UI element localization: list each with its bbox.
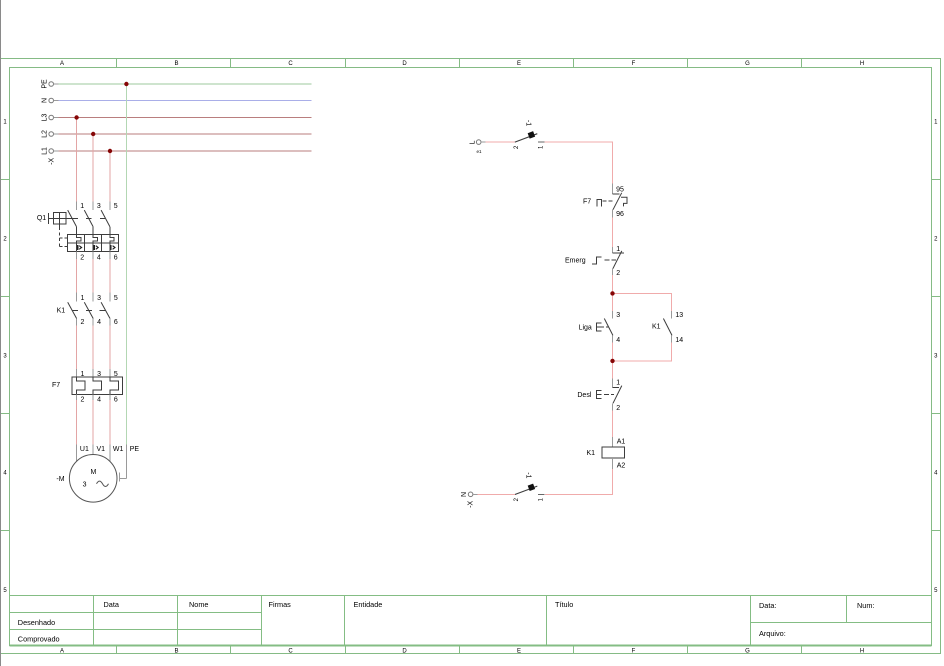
contactor K1 main contacts (57, 293, 118, 327)
svg-text:L2: L2 (41, 130, 48, 138)
svg-text:E: E (517, 648, 521, 654)
svg-text:e1: e1 (477, 149, 483, 154)
wire PE bus (59, 83, 312, 85)
svg-text:1: 1 (616, 246, 620, 253)
svg-text:96: 96 (616, 211, 624, 218)
pushbutton Emerg NC (565, 246, 624, 277)
svg-text:3: 3 (3, 354, 7, 360)
svg-text:E: E (517, 61, 521, 67)
svg-text:A: A (60, 61, 64, 67)
svg-text:4: 4 (616, 337, 620, 344)
svg-text:Num:: Num: (857, 601, 874, 610)
svg-text:3: 3 (934, 354, 938, 360)
wire F7 aux to Emerg (612, 218, 614, 247)
title block (10, 596, 932, 646)
svg-text:14: 14 (675, 337, 683, 344)
svg-text:2: 2 (934, 237, 938, 243)
svg-text:4: 4 (934, 471, 938, 477)
svg-text:Firmas: Firmas (269, 600, 292, 609)
svg-text:3: 3 (616, 312, 620, 319)
svg-text:1: 1 (3, 120, 7, 126)
net label N (41, 98, 48, 103)
net label PE (41, 79, 48, 89)
wire Desl to coil (612, 410, 614, 437)
overload relay F7 (52, 369, 122, 404)
svg-text:G: G (745, 61, 750, 67)
net label L (470, 140, 477, 144)
svg-text:2: 2 (81, 319, 85, 326)
svg-text:2: 2 (3, 237, 7, 243)
wire PE drop (125, 84, 127, 444)
svg-text:2: 2 (616, 270, 620, 277)
terminal -X N (control) (468, 492, 477, 497)
svg-text:PE: PE (130, 446, 140, 453)
svg-text:A: A (60, 648, 64, 654)
svg-text:K1: K1 (57, 308, 66, 315)
wire K1 aux to node B (613, 343, 672, 361)
svg-text:2: 2 (616, 405, 620, 412)
svg-text:5: 5 (3, 588, 7, 594)
svg-text:A1: A1 (617, 439, 626, 446)
svg-text:-1: -1 (524, 120, 531, 126)
wire L1 drop (109, 151, 111, 201)
svg-text:5: 5 (934, 588, 938, 594)
wire Q1 to K1 (77, 252, 110, 259)
svg-text:U1: U1 (80, 446, 89, 453)
svg-text:4: 4 (97, 397, 101, 404)
svg-text:1: 1 (81, 295, 85, 302)
svg-text:H: H (860, 648, 864, 654)
svg-text:4: 4 (97, 254, 101, 261)
pushbutton Desl NC (577, 379, 621, 413)
svg-text:L: L (470, 140, 477, 144)
node B junction (610, 359, 614, 363)
svg-text:Q1: Q1 (37, 215, 46, 222)
wire L3 drop (76, 118, 78, 202)
breaker -1 (control, top) (514, 120, 545, 149)
svg-text:F7: F7 (52, 382, 60, 389)
net label N (461, 492, 468, 497)
motor PE frame connection (119, 444, 126, 481)
wire L2 bus (59, 133, 312, 135)
svg-text:L1: L1 (41, 147, 48, 155)
svg-text:1: 1 (80, 203, 84, 210)
designator -X (468, 500, 475, 507)
motor -M (56, 444, 139, 502)
wire F7 to motor (77, 400, 110, 444)
svg-text:5: 5 (114, 203, 118, 210)
wire node B to Desl (612, 361, 614, 379)
svg-text:2: 2 (80, 254, 84, 261)
svg-text:Entidade: Entidade (354, 600, 383, 609)
svg-text:B: B (174, 648, 178, 654)
pushbutton Liga NO (579, 311, 621, 344)
wire N terminal to breaker 2 (478, 494, 515, 496)
svg-text:Arquivo:: Arquivo: (759, 629, 786, 638)
svg-text:H: H (860, 61, 864, 67)
svg-text:2: 2 (514, 497, 520, 501)
wire L3 bus (59, 117, 312, 119)
svg-text:K1: K1 (586, 450, 595, 457)
svg-text:5: 5 (114, 295, 118, 302)
terminal -X L1 (49, 149, 59, 154)
svg-text:C: C (288, 61, 293, 67)
terminal -X L (control) (476, 140, 485, 145)
svg-text:M: M (90, 469, 96, 476)
svg-text:2: 2 (514, 145, 520, 149)
svg-text:3: 3 (83, 481, 87, 488)
wire L to breaker (486, 141, 515, 143)
svg-text:-X: -X (468, 500, 475, 507)
wire Liga to node B (612, 343, 614, 361)
junction PE (124, 82, 128, 86)
terminal -X L2 (49, 132, 59, 137)
F7 auxiliary NC contact 95-96 (583, 184, 627, 218)
svg-text:L3: L3 (41, 114, 48, 122)
svg-text:A2: A2 (617, 462, 626, 469)
svg-text:D: D (402, 61, 407, 67)
terminal label e1 (477, 149, 483, 154)
breaker -1 (control, bottom) (514, 472, 545, 501)
junction L2 (91, 132, 95, 136)
svg-text:6: 6 (114, 319, 118, 326)
gray canvas edge (0, 0, 2, 666)
svg-text:D: D (402, 648, 407, 654)
net label L3 (41, 114, 48, 122)
junction L1 (108, 149, 112, 153)
svg-text:1: 1 (539, 497, 545, 501)
designator -X (48, 157, 55, 164)
wire breaker to F7 aux (544, 142, 612, 184)
svg-text:4: 4 (97, 319, 101, 326)
coil K1 (586, 437, 625, 469)
svg-text:Liga: Liga (579, 325, 592, 332)
svg-text:-X: -X (48, 157, 55, 164)
svg-text:1: 1 (616, 379, 620, 386)
svg-text:2: 2 (81, 397, 85, 404)
svg-text:Título: Título (555, 600, 573, 609)
svg-text:3: 3 (97, 203, 101, 210)
net label L1 (41, 147, 48, 155)
svg-text:N: N (41, 98, 48, 103)
svg-text:K1: K1 (652, 324, 661, 331)
breaker Q1 (37, 201, 119, 261)
contact K1 aux NO 13-14 (652, 311, 683, 344)
wire branch to K1 aux (613, 293, 672, 311)
svg-text:N: N (461, 492, 468, 497)
terminal -X L3 (49, 115, 59, 120)
svg-text:Desenhado: Desenhado (18, 618, 55, 627)
svg-text:-M: -M (56, 476, 64, 483)
wire L2 drop (92, 134, 94, 201)
svg-text:95: 95 (616, 187, 624, 194)
net label L2 (41, 130, 48, 138)
junction L3 (74, 115, 78, 119)
terminal -X N (49, 98, 59, 103)
node A junction (610, 291, 614, 295)
svg-text:3: 3 (97, 295, 101, 302)
svg-text:6: 6 (114, 397, 118, 404)
svg-text:Data:: Data: (759, 601, 776, 610)
svg-text:Data: Data (104, 600, 120, 609)
svg-text:4: 4 (3, 471, 7, 477)
svg-text:Desl: Desl (577, 392, 591, 399)
svg-text:F7: F7 (583, 198, 591, 205)
svg-text:W1: W1 (113, 446, 124, 453)
svg-text:C: C (288, 648, 293, 654)
svg-text:Nome: Nome (189, 600, 208, 609)
wire node A to Liga (612, 293, 614, 311)
wire coil to breaker 2 (545, 469, 612, 495)
svg-text:B: B (174, 61, 178, 67)
svg-text:F: F (632, 61, 636, 67)
svg-text:1: 1 (934, 120, 938, 126)
svg-text:Emerg: Emerg (565, 258, 586, 265)
svg-text:6: 6 (114, 254, 118, 261)
svg-text:V1: V1 (97, 446, 106, 453)
svg-text:G: G (745, 648, 750, 654)
wire N bus (59, 100, 312, 102)
svg-text:-1: -1 (524, 472, 531, 478)
svg-text:Comprovado: Comprovado (18, 635, 60, 644)
wire Emerg to node A (612, 275, 614, 293)
svg-text:F: F (632, 648, 636, 654)
svg-text:1: 1 (539, 145, 545, 149)
wire L1 bus (59, 150, 312, 152)
wire K1 to F7 (77, 325, 110, 369)
terminal -X PE (49, 82, 59, 87)
svg-text:PE: PE (41, 79, 48, 89)
svg-text:13: 13 (675, 312, 683, 319)
